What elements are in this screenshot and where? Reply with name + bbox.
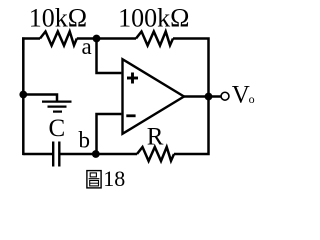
wire top-left segment (23, 39, 40, 51)
svg-text:18: 18 (103, 166, 125, 191)
resistor R zigzag (137, 147, 174, 161)
resistor R1 10k zigzag (40, 32, 77, 46)
wire op-amp output to terminal (183, 95, 221, 98)
svg-text:b: b (79, 128, 91, 153)
svg-text:o: o (249, 92, 255, 106)
svg-text:V: V (232, 82, 250, 109)
resistor R2 100k zigzag (136, 32, 173, 46)
svg-text:R: R (147, 123, 164, 150)
wire resistor R2 to right corner down to output node (173, 39, 209, 97)
svg-text:100kΩ: 100kΩ (118, 3, 189, 32)
capacitor C plates (53, 142, 59, 167)
ground junction dot (19, 91, 27, 99)
wire left side vertical (22, 37, 25, 155)
wire resistor R1 to node a (77, 37, 97, 40)
output terminal open circle (221, 92, 229, 100)
wire node b to resistor R (97, 153, 138, 156)
op-amp plus sign (127, 73, 138, 84)
svg-text:a: a (82, 34, 92, 59)
wire resistor R to right corner up (174, 97, 209, 155)
op-amp minus sign (126, 114, 135, 117)
wire node a to resistor R2 (97, 37, 137, 40)
wire node b up to op-amp minus input (97, 114, 122, 154)
wire bottom-left to capacitor (23, 153, 52, 156)
ground symbol bars (42, 102, 72, 112)
wire capacitor to node b (60, 153, 96, 156)
svg-text:C: C (49, 115, 66, 142)
wire ground branch horizontal (23, 95, 57, 101)
node a junction dot (93, 35, 101, 43)
output junction dot (205, 93, 213, 101)
caption figure glyph (CJK tu) drawn as strokes (87, 171, 101, 188)
wire node a down to op-amp plus input (97, 39, 122, 74)
svg-text:10kΩ: 10kΩ (29, 3, 87, 32)
op-amp U1 triangle (123, 59, 185, 134)
node b junction dot (92, 150, 100, 158)
